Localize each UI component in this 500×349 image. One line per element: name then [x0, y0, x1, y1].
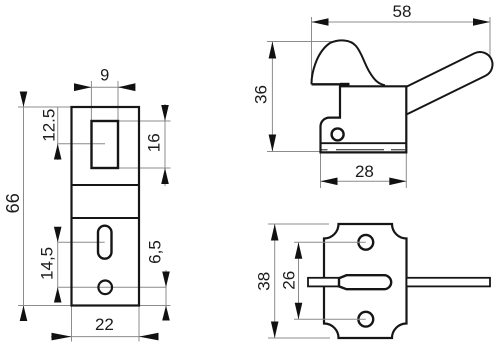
svg-text:9: 9 [100, 67, 109, 85]
svg-text:58: 58 [393, 2, 412, 21]
svg-text:38: 38 [255, 272, 274, 291]
svg-text:22: 22 [95, 315, 114, 334]
svg-text:36: 36 [252, 85, 271, 104]
svg-text:16: 16 [145, 133, 164, 152]
svg-text:26: 26 [280, 271, 299, 290]
svg-text:6,5: 6,5 [145, 240, 164, 264]
svg-text:14,5: 14,5 [38, 247, 57, 280]
svg-text:66: 66 [3, 193, 23, 213]
svg-text:12.5: 12.5 [39, 109, 58, 142]
svg-text:28: 28 [355, 162, 374, 181]
